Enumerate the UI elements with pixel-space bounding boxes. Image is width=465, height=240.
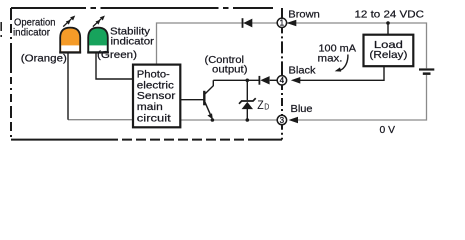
svg-text:Sensor: Sensor [137, 91, 176, 102]
svg-text:Z: Z [257, 98, 264, 112]
svg-text:0 V: 0 V [380, 124, 396, 136]
svg-text:Brown: Brown [288, 8, 320, 20]
svg-text:4: 4 [280, 76, 285, 85]
svg-text:indicator: indicator [13, 26, 50, 38]
svg-text:D: D [264, 102, 269, 112]
svg-text:(Orange): (Orange) [21, 52, 67, 64]
svg-text:(Green): (Green) [97, 49, 137, 61]
svg-text:electric: electric [137, 81, 174, 92]
svg-text:12 to 24 VDC: 12 to 24 VDC [355, 9, 425, 21]
svg-text:circuit: circuit [137, 113, 171, 124]
svg-text:main: main [137, 102, 163, 113]
svg-text:(Relay): (Relay) [369, 49, 407, 61]
svg-text:Black: Black [289, 65, 317, 77]
svg-text:indicator: indicator [111, 35, 155, 47]
svg-text:output): output) [212, 64, 248, 76]
svg-text:max.: max. [318, 53, 343, 65]
svg-text:Photo-: Photo- [137, 70, 170, 81]
svg-text:1: 1 [280, 19, 285, 28]
svg-text:Blue: Blue [291, 103, 313, 115]
svg-text:3: 3 [280, 116, 285, 125]
